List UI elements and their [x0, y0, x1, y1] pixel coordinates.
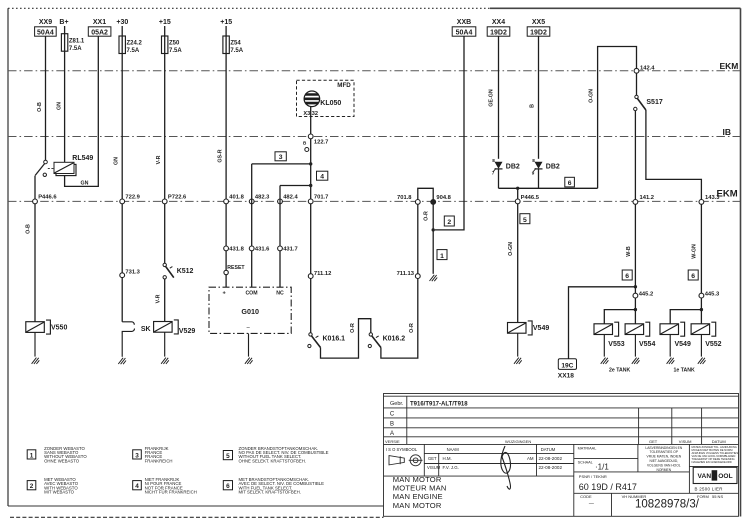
note 1 ZONDER WEBASTO	[27, 446, 87, 464]
ISO projection symbol	[389, 455, 423, 466]
right mid cells	[574, 444, 739, 493]
svg-text:GET: GET	[428, 456, 437, 461]
note box 6 (right tank branch)	[688, 270, 698, 280]
svg-text:MAN MOTOR: MAN MOTOR	[393, 501, 442, 510]
node 711.13	[397, 271, 421, 278]
svg-text:MIT WEBASTO: MIT WEBASTO	[44, 490, 75, 495]
svg-text:NAGEZIEN EN GOEDGEKEURD: NAGEZIEN EN GOEDGEKEURD	[692, 460, 732, 464]
svg-text:OOL: OOL	[718, 473, 733, 480]
svg-text:P446.5: P446.5	[521, 195, 540, 201]
connector XXB 50A4	[452, 19, 476, 37]
svg-text:LASVERBINDINGEN EN: LASVERBINDINGEN EN	[645, 446, 682, 450]
svg-text:TOLERANTIES OP: TOLERANTIES OP	[650, 450, 679, 454]
svg-text:OHNE WEBASTO: OHNE WEBASTO	[44, 458, 80, 463]
svg-text:NAAM: NAAM	[447, 447, 460, 452]
svg-text:GN: GN	[114, 157, 120, 165]
svg-text:7: 7	[492, 170, 495, 175]
svg-text:143.3: 143.3	[705, 195, 720, 201]
fuse Z50 7.5A	[162, 36, 183, 54]
node 143.3	[699, 195, 720, 205]
diode DB2 (right, pins 8/9)	[532, 158, 560, 188]
svg-text:XX5: XX5	[532, 19, 545, 26]
note 4 NIET FRANKRIJK	[133, 477, 197, 495]
wire XXB to 904.8 ground wire	[435, 36, 464, 230]
svg-text:711.13: 711.13	[397, 271, 415, 277]
svg-text:NC: NC	[276, 290, 284, 296]
svg-text:7.5A: 7.5A	[169, 48, 182, 54]
note 3 FRANKRIJK	[133, 446, 173, 464]
connector 19C XX18	[558, 359, 577, 380]
svg-text:H.M.: H.M.	[443, 456, 452, 461]
ground (V552)	[698, 358, 706, 364]
svg-text:V553: V553	[608, 341, 624, 348]
wire XX9 to RL549 contact (O-B)	[37, 36, 46, 160]
svg-text:RL549: RL549	[72, 155, 93, 162]
svg-text:05A2: 05A2	[91, 30, 108, 37]
svg-text:K512: K512	[177, 268, 194, 275]
fuse Z24.2 7.5A	[119, 36, 143, 54]
svg-text:4: 4	[320, 174, 324, 181]
ground (V554)	[632, 358, 640, 364]
wire branch to connector 19C XX18	[569, 285, 638, 359]
svg-text:10828978/3/: 10828978/3/	[635, 499, 700, 511]
note box 1	[437, 250, 447, 260]
svg-text:K016.1: K016.1	[323, 335, 346, 342]
svg-text:445.2: 445.2	[639, 291, 654, 297]
valve V554	[625, 322, 655, 356]
svg-text:IB: IB	[723, 127, 732, 137]
svg-text:VERSIE: VERSIE	[385, 439, 400, 444]
svg-text:XX18: XX18	[558, 372, 574, 379]
svg-text:W-B: W-B	[626, 246, 632, 257]
svg-text:−: −	[246, 325, 250, 332]
svg-text:4: 4	[135, 483, 139, 490]
svg-text:22-08-2002: 22-08-2002	[539, 456, 563, 461]
svg-text:XX9: XX9	[39, 19, 52, 26]
ground (SK)	[118, 358, 126, 364]
node 904.8	[431, 195, 452, 204]
PSNR / TEKNR cell	[574, 474, 739, 516]
svg-text:B: B	[530, 104, 536, 108]
svg-text:B 2500 LIER: B 2500 LIER	[695, 486, 723, 491]
switch K512	[163, 204, 194, 279]
node 445.3	[699, 291, 720, 298]
small norms text block	[692, 445, 739, 464]
svg-text:122.7: 122.7	[314, 139, 329, 145]
svg-text:19D2: 19D2	[530, 30, 547, 37]
svg-text:—: —	[589, 501, 594, 507]
MAN MOTOR titles	[393, 475, 447, 510]
note box 4	[317, 171, 328, 180]
note 5 ZONDER BRANDSTOFTANKOMSCHAK	[223, 446, 328, 464]
wire node 482.4 to G010 NC and branch to KL050 wire	[278, 186, 311, 288]
ground (904.8 wire)	[430, 275, 438, 281]
svg-text:7.5A: 7.5A	[127, 48, 140, 54]
svg-text:P722.6: P722.6	[168, 195, 187, 201]
title block middle band	[384, 444, 574, 516]
svg-text:NORMEN: NORMEN	[656, 468, 671, 472]
terminal B+	[59, 19, 68, 162]
svg-text:FRANKREICH: FRANKREICH	[145, 458, 173, 463]
svg-text:EKM: EKM	[717, 189, 738, 200]
svg-text:V-R: V-R	[155, 294, 161, 303]
ground (V553)	[601, 358, 609, 364]
node 482.4	[278, 195, 299, 204]
svg-text:701.8: 701.8	[397, 195, 412, 201]
wire rail up to S517 (O-GN)	[589, 47, 637, 189]
connector XX5 19D2	[527, 19, 550, 37]
node P446.6	[33, 176, 58, 204]
valve V549 (left)	[508, 321, 550, 357]
valve V550	[26, 320, 68, 357]
node 431.8 and RESET input of G010	[224, 204, 246, 287]
switch S517	[634, 73, 663, 111]
CODE / VH NUMMER row	[580, 494, 723, 511]
connector XX4 19D2	[487, 19, 510, 37]
svg-text:S517: S517	[646, 99, 662, 106]
svg-text:1: 1	[30, 452, 34, 459]
terminal +15 (second)	[218, 19, 233, 201]
wire node 482.3 to G010 COM and branch to KL050 wire	[249, 164, 310, 287]
note box 3	[275, 152, 286, 161]
wire XX1 to RL549 coil (GN)	[65, 36, 99, 186]
svg-text:141.2: 141.2	[640, 195, 655, 201]
node 731.3	[120, 204, 141, 278]
node 711.12	[308, 204, 331, 279]
svg-text:VOLGENS VAN HOOL: VOLGENS VAN HOOL	[647, 463, 681, 467]
wire bridge node 701.8 to node 904.8	[418, 188, 433, 199]
node 141.2	[633, 195, 654, 205]
title block	[384, 394, 739, 517]
wire S517 NC contact to node 141.2	[634, 111, 636, 202]
svg-text:Z24.2: Z24.2	[127, 41, 143, 47]
wire 445.3 to valves V549/V552	[670, 298, 703, 324]
svg-text:711.12: 711.12	[314, 271, 331, 277]
svg-text:482.3: 482.3	[255, 195, 270, 201]
svg-text:19D2: 19D2	[490, 30, 507, 37]
svg-text:GS-R: GS-R	[218, 149, 224, 162]
svg-text:8: 8	[492, 158, 495, 163]
wire XX4 to diode DB2 (GE-GN)	[488, 36, 498, 159]
svg-text:19C: 19C	[561, 362, 573, 369]
svg-text:XX1: XX1	[93, 19, 106, 26]
svg-text:1e TANK: 1e TANK	[674, 367, 695, 373]
svg-text:OHNE SELEKT. KRAFTSTOFBEH.: OHNE SELEKT. KRAFTSTOFBEH.	[239, 458, 307, 463]
svg-text:5: 5	[523, 217, 527, 224]
valve V552	[691, 322, 722, 356]
tolerances note text	[645, 446, 682, 472]
svg-text:T916/T917-ALT/T918: T916/T917-ALT/T918	[410, 401, 468, 407]
svg-text:VAN: VAN	[698, 473, 712, 480]
svg-text:+15: +15	[220, 19, 232, 26]
svg-text:V554: V554	[639, 341, 655, 348]
relay RL549 (coil)	[54, 155, 93, 176]
svg-text:V549: V549	[533, 325, 549, 332]
switch K016.1	[308, 279, 345, 348]
svg-text:I S O SYMBOOL: I S O SYMBOOL	[386, 447, 418, 452]
svg-text:722.9: 722.9	[125, 195, 140, 201]
svg-text:VISUM: VISUM	[679, 439, 692, 444]
svg-text:O-B: O-B	[37, 102, 43, 112]
svg-text:1: 1	[440, 253, 444, 260]
svg-text:2: 2	[30, 483, 34, 490]
svg-text:VISUM: VISUM	[427, 465, 441, 470]
svg-text:V529: V529	[179, 328, 195, 335]
svg-text:3: 3	[279, 154, 283, 161]
svg-text:B+: B+	[59, 19, 68, 26]
connector SK	[122, 278, 150, 357]
svg-text:P446.6: P446.6	[38, 195, 57, 201]
node 401.8	[224, 195, 245, 204]
svg-text:8: 8	[532, 158, 535, 163]
svg-text:DATUM: DATUM	[712, 439, 726, 444]
svg-text:Z50: Z50	[169, 41, 180, 47]
svg-text:GN: GN	[81, 181, 89, 187]
svg-text:W-GN: W-GN	[691, 244, 697, 259]
connector XX1 05A2	[88, 19, 111, 37]
node P446.5	[515, 190, 539, 204]
wire K016.2 to node 701.8 (O-R)	[381, 204, 418, 358]
svg-text:G010: G010	[241, 307, 259, 316]
svg-text:55 NS: 55 NS	[712, 494, 723, 499]
svg-text:431.8: 431.8	[229, 246, 244, 252]
note box 6 (left tank branch)	[622, 270, 632, 280]
svg-text:Gebr.: Gebr.	[390, 401, 404, 407]
switch K016.2	[368, 333, 405, 348]
svg-text:6: 6	[691, 273, 695, 280]
svg-text:482.4: 482.4	[283, 195, 298, 201]
wire P446.6 to V550 (O-B)	[26, 204, 36, 322]
wire KL050 to node 701.7	[309, 107, 312, 202]
svg-text:C: C	[390, 412, 395, 418]
wire diode rail to S517 feed	[499, 187, 598, 190]
svg-text:H: H	[712, 473, 717, 480]
svg-text:F.V. J.G.: F.V. J.G.	[443, 465, 459, 470]
wire K512 to V529 (V-R)	[155, 279, 164, 322]
svg-text:O-R: O-R	[350, 323, 356, 333]
control unit G010	[209, 287, 291, 356]
svg-text:DATUM: DATUM	[541, 447, 556, 452]
net IB rail	[8, 127, 740, 137]
note 6 MET BRANDSTOFTANKOMSCHAK	[223, 477, 324, 495]
svg-text:B: B	[390, 422, 394, 428]
node 701.8	[397, 195, 420, 204]
ground (V549 left)	[514, 358, 522, 364]
svg-text:O-B: O-B	[26, 224, 32, 234]
svg-text:V549: V549	[675, 341, 691, 348]
revision table texts	[385, 401, 726, 444]
svg-text:+30: +30	[116, 19, 128, 26]
svg-text:NIET AANGEDUID,: NIET AANGEDUID,	[649, 459, 678, 463]
svg-text:2: 2	[447, 219, 451, 226]
svg-text:22-08-2002: 22-08-2002	[539, 465, 563, 470]
svg-text:PSNR / TEKNR: PSNR / TEKNR	[579, 474, 607, 479]
svg-text:KL050: KL050	[320, 100, 341, 107]
ground (V549 right)	[667, 358, 675, 364]
svg-text:5: 5	[226, 453, 230, 460]
wire P446.5 to V549 left (O-GN)	[508, 204, 518, 323]
svg-text:50A4: 50A4	[37, 30, 54, 37]
wire XX5 to diode DB2 (B)	[530, 36, 539, 159]
node 142.4	[634, 65, 655, 73]
svg-text:Z54: Z54	[230, 41, 241, 47]
ground (G010)	[245, 358, 253, 364]
node 122.7 (pin B)	[303, 134, 328, 152]
note box 6 (diode rail)	[565, 177, 575, 187]
svg-text:142.4: 142.4	[640, 65, 655, 71]
svg-text:MATRIAAL: MATRIAAL	[578, 446, 597, 450]
node 482.3	[249, 195, 270, 204]
svg-text:GET: GET	[649, 439, 658, 444]
display unit KL050 (MFD)	[297, 80, 355, 117]
node P722.6	[162, 195, 187, 204]
svg-text:60 19D / R417: 60 19D / R417	[579, 482, 637, 492]
node 445.2	[633, 291, 653, 298]
relay RL549 contact (switch)	[35, 160, 53, 176]
svg-text:CODE: CODE	[580, 494, 592, 499]
svg-text:MIT SELEKT. KRAFTSTOFBEH.: MIT SELEKT. KRAFTSTOFBEH.	[239, 490, 301, 495]
svg-text:6: 6	[226, 483, 230, 490]
svg-text:50A4: 50A4	[456, 30, 473, 37]
svg-text:7.5A: 7.5A	[230, 48, 243, 54]
svg-text:XXB: XXB	[457, 19, 471, 26]
svg-text:6: 6	[568, 180, 572, 187]
svg-text:O-R: O-R	[424, 211, 430, 221]
svg-text:701.7: 701.7	[314, 195, 329, 201]
svg-text:V552: V552	[705, 341, 721, 348]
svg-text:SK: SK	[141, 326, 151, 333]
svg-text:XX4: XX4	[492, 19, 505, 26]
VAN HOOL logo	[693, 467, 737, 491]
ground (V529)	[161, 358, 169, 364]
svg-text:445.3: 445.3	[705, 291, 720, 297]
svg-text:DB2: DB2	[546, 163, 560, 170]
net EKM (lower rail)	[8, 189, 740, 202]
connector XX9 50A4	[35, 19, 57, 37]
svg-text:AM: AM	[527, 456, 534, 461]
svg-text:EKM: EKM	[720, 61, 739, 71]
diode DB2 (left, pins 8/7)	[492, 158, 520, 188]
wire 141.2 to tank valves (W-B)	[626, 204, 636, 293]
svg-text:·1/1: ·1/1	[595, 463, 609, 472]
wire 143.3 to tank valves (W-GN)	[691, 204, 701, 293]
svg-text:RESET: RESET	[227, 265, 245, 271]
valve V549 (right group)	[660, 322, 691, 356]
fuse Z54 7.5A	[223, 36, 244, 54]
svg-text:DB2: DB2	[506, 163, 520, 170]
svg-text:V-R: V-R	[156, 155, 162, 164]
svg-text:731.3: 731.3	[125, 269, 140, 275]
svg-text:431.7: 431.7	[283, 246, 298, 252]
svg-text:GN: GN	[57, 102, 63, 110]
svg-text:COM: COM	[245, 290, 257, 296]
wire K016.1 to K016.2 (O-R)	[321, 319, 371, 358]
svg-text:VRIJE MATEN, INDIEN: VRIJE MATEN, INDIEN	[647, 455, 682, 459]
svg-text:SCHAAL: SCHAAL	[578, 461, 593, 465]
svg-text:WIJZIGINGEN: WIJZIGINGEN	[505, 439, 531, 444]
svg-text:6: 6	[625, 273, 629, 280]
valve V529	[154, 320, 196, 357]
svg-text:9: 9	[532, 170, 535, 175]
svg-text:904.8: 904.8	[436, 195, 451, 201]
note box 5	[520, 214, 530, 224]
note 2 MET WEBASTO	[27, 477, 79, 495]
svg-text:2e TANK: 2e TANK	[609, 367, 630, 373]
svg-text:431.6: 431.6	[255, 246, 270, 252]
fuse Z81.1 7.5A	[57, 34, 85, 110]
svg-text:7.5A: 7.5A	[69, 46, 82, 52]
wire S517 blade to node 143.3	[646, 110, 702, 201]
svg-text:3: 3	[135, 452, 139, 459]
svg-text:MFD: MFD	[337, 82, 351, 89]
svg-text:401.8: 401.8	[229, 195, 244, 201]
svg-text:O-GN: O-GN	[589, 89, 595, 103]
svg-text:GE-GN: GE-GN	[488, 89, 494, 107]
node 701.7	[308, 195, 328, 204]
valve V553	[594, 322, 625, 356]
svg-text:V550: V550	[51, 325, 67, 332]
svg-text:MOTEUR MAN: MOTEUR MAN	[393, 484, 447, 493]
svg-text:A: A	[390, 431, 394, 437]
svg-text:Z81.1: Z81.1	[69, 39, 85, 45]
svg-text:O-GN: O-GN	[508, 242, 514, 256]
ground (V550)	[32, 358, 40, 364]
terminal +30	[114, 19, 129, 201]
signature scribble	[501, 446, 511, 489]
svg-text:K016.2: K016.2	[383, 335, 406, 342]
node 722.9	[120, 195, 141, 204]
svg-text:NICHT FÜR FRANKREICH: NICHT FÜR FRANKREICH	[145, 490, 197, 495]
svg-text:O-R: O-R	[409, 323, 415, 333]
svg-text:+15: +15	[159, 19, 171, 26]
wire 445.2 to valves V553/V554	[604, 298, 637, 324]
net EKM (top rail)	[8, 61, 740, 71]
wire node 904.8 to ground (O-R)	[424, 204, 435, 273]
terminal +15 (first)	[156, 19, 171, 201]
note box 2	[444, 216, 454, 226]
